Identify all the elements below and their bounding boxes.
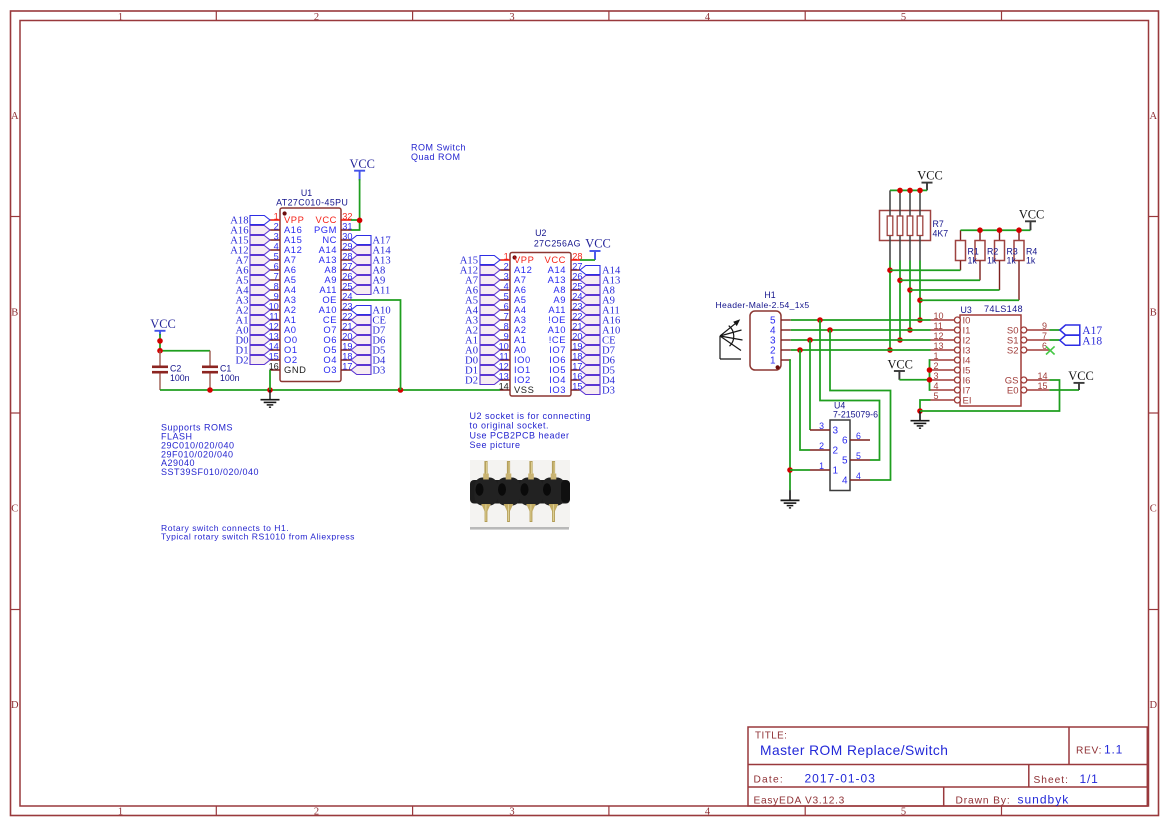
svg-text:TITLE:: TITLE: bbox=[755, 731, 787, 742]
annotation rotary switch note bbox=[161, 523, 355, 542]
R2 labels bbox=[987, 246, 998, 265]
junction dots above R7 bbox=[897, 188, 903, 194]
svg-text:1: 1 bbox=[118, 806, 123, 817]
junction dot C1 bottom bbox=[207, 387, 213, 393]
junction dot H1.1 / U4.1 bbox=[787, 467, 793, 473]
net flag A7 (U1 pin 5) bbox=[236, 256, 270, 267]
svg-text:Sheet:: Sheet: bbox=[1034, 775, 1069, 786]
junction dot U1 GND bbox=[267, 387, 273, 393]
wire S1 to A18 flag bbox=[1049, 339, 1059, 341]
wire ground rail y=390 bbox=[160, 389, 500, 391]
net flag A17 (U3 S0) bbox=[1060, 325, 1103, 337]
svg-text:S2: S2 bbox=[1007, 345, 1019, 356]
svg-text:100n: 100n bbox=[170, 373, 190, 383]
wires R1-R4 bottoms to input rows bbox=[890, 269, 961, 271]
net flag A18 (U3 S1) bbox=[1060, 335, 1103, 347]
svg-text:C: C bbox=[11, 504, 18, 515]
net flag A11 (U1 pin 25) bbox=[351, 286, 390, 297]
svg-text:74LS148: 74LS148 bbox=[984, 304, 1023, 314]
net flag A6 (U1 pin 6) bbox=[236, 266, 270, 277]
IC U3 74LS148 body bbox=[960, 315, 1021, 406]
annotation ROM Switch / Quad ROM bbox=[411, 142, 466, 162]
svg-text:to original socket.: to original socket. bbox=[470, 421, 550, 431]
junction dots on H1 row wires bbox=[817, 317, 823, 323]
svg-text:Header-Male-2.54_1x5: Header-Male-2.54_1x5 bbox=[716, 300, 810, 310]
svg-text:3: 3 bbox=[833, 425, 839, 436]
svg-text:1/1: 1/1 bbox=[1080, 772, 1099, 786]
svg-text:4: 4 bbox=[705, 12, 711, 23]
net flag A1 (U2 pin 9) bbox=[465, 336, 500, 347]
junction dots R7 verticals bbox=[887, 267, 893, 273]
svg-text:11: 11 bbox=[499, 352, 509, 362]
wire U4.1 from H1.1 vertical bbox=[790, 469, 810, 471]
svg-text:5: 5 bbox=[901, 806, 906, 817]
net flag A9 (U2 pin 24) bbox=[580, 296, 615, 307]
svg-text:5: 5 bbox=[842, 455, 848, 466]
vcc-c2-symbol bbox=[150, 317, 175, 336]
svg-text:VCC: VCC bbox=[917, 169, 942, 183]
capacitor C1 100n bbox=[202, 351, 240, 390]
U1 left pins 1-16 bbox=[269, 212, 307, 376]
vcc-r4-symbol bbox=[1019, 207, 1044, 230]
net flag A4 (U2 pin 6) bbox=[465, 306, 500, 317]
net flag D1 (U1 pin 14) bbox=[236, 346, 270, 357]
wire net H1.4 / I1 bbox=[791, 329, 931, 331]
wire VCC node to U1 pin 31 PGM bbox=[351, 220, 360, 230]
svg-text:EI: EI bbox=[963, 395, 972, 406]
svg-text:9: 9 bbox=[504, 332, 509, 342]
svg-text:14: 14 bbox=[1038, 371, 1048, 381]
svg-text:5: 5 bbox=[901, 12, 906, 23]
vcc-u1-symbol bbox=[349, 157, 374, 181]
wire U1 pin16 GND down to rail bbox=[269, 370, 271, 390]
svg-text:31: 31 bbox=[342, 222, 352, 232]
wire I0 node down to U4.5 bbox=[820, 320, 880, 460]
net flag A14 (U1 pin 29) bbox=[351, 246, 391, 257]
svg-text:B: B bbox=[1150, 307, 1157, 318]
svg-text:1k: 1k bbox=[968, 256, 978, 266]
svg-text:2: 2 bbox=[314, 12, 319, 23]
svg-text:Typical rotary switch RS1010 f: Typical rotary switch RS1010 from Aliexp… bbox=[161, 532, 355, 542]
svg-text:C: C bbox=[1150, 504, 1157, 515]
svg-text:A: A bbox=[11, 111, 19, 122]
net flag A4 (U1 pin 8) bbox=[236, 286, 270, 297]
net flag A10 (U1 pin 23) bbox=[351, 306, 391, 317]
svg-text:2: 2 bbox=[504, 262, 509, 272]
frame column numbers bbox=[118, 12, 906, 818]
wires R7 outputs down to input rows bbox=[889, 261, 891, 351]
svg-text:12: 12 bbox=[934, 331, 944, 341]
wire I2 node down to U4.3 bbox=[809, 340, 811, 430]
svg-text:VCC: VCC bbox=[150, 317, 175, 331]
svg-text:4: 4 bbox=[705, 806, 711, 817]
svg-text:4: 4 bbox=[504, 282, 509, 292]
svg-text:VSS: VSS bbox=[514, 384, 534, 395]
net flag CE (U2 pin 20) bbox=[580, 336, 616, 347]
svg-text:3: 3 bbox=[934, 371, 939, 381]
svg-text:A18: A18 bbox=[1082, 336, 1102, 348]
net flag A12 (U1 pin 4) bbox=[230, 246, 270, 257]
wire VCC to I4-I7 tie bbox=[899, 379, 929, 381]
svg-text:3: 3 bbox=[274, 232, 279, 242]
vcc-i6-symbol bbox=[887, 357, 912, 379]
svg-text:Use PCB2PCB header: Use PCB2PCB header bbox=[470, 430, 570, 440]
wire net H1.2 / I3 bbox=[791, 349, 931, 351]
svg-text:14: 14 bbox=[499, 382, 509, 392]
svg-text:2017-01-03: 2017-01-03 bbox=[805, 772, 876, 786]
U2 right pins 15-28 bbox=[545, 252, 583, 396]
svg-text:EasyEDA V3.12.3: EasyEDA V3.12.3 bbox=[754, 795, 845, 806]
U1 right pins 17-32 bbox=[314, 212, 353, 376]
junction dots on VCC stem bbox=[157, 338, 163, 344]
svg-text:7: 7 bbox=[274, 272, 279, 282]
svg-text:Master ROM Replace/Switch: Master ROM Replace/Switch bbox=[760, 743, 948, 758]
wire net H1.3 / I2 bbox=[791, 339, 931, 341]
wire net H1.5 / I0 bbox=[791, 319, 931, 321]
net flag D6 (U2 pin 18) bbox=[580, 356, 615, 367]
svg-text:1: 1 bbox=[504, 252, 509, 262]
svg-text:6: 6 bbox=[274, 262, 279, 272]
junction dot OE wire at rail bbox=[398, 387, 404, 393]
U3 output pins S0,S1,S2,GS,E0 bbox=[1005, 321, 1050, 397]
wire I3 node down to U4.2 bbox=[800, 350, 810, 450]
net flag A5 (U2 pin 5) bbox=[465, 296, 500, 307]
svg-text:U2 socket is for connecting: U2 socket is for connecting bbox=[470, 411, 592, 421]
resistor R2 1k bbox=[975, 230, 985, 280]
net flag D5 (U1 pin 19) bbox=[351, 346, 385, 357]
svg-text:1.1: 1.1 bbox=[1104, 743, 1123, 757]
net flag A11 (U2 pin 23) bbox=[580, 306, 620, 317]
net flag A6 (U2 pin 4) bbox=[465, 286, 500, 297]
svg-text:4: 4 bbox=[934, 381, 939, 391]
svg-text:1: 1 bbox=[819, 461, 824, 471]
svg-text:3: 3 bbox=[509, 806, 514, 817]
svg-text:D3: D3 bbox=[372, 366, 385, 377]
svg-text:1: 1 bbox=[833, 465, 839, 476]
wire S0 to A17 flag bbox=[1049, 329, 1059, 331]
net flag A1 (U1 pin 11) bbox=[236, 316, 270, 327]
net flag A16 (U2 pin 22) bbox=[580, 316, 620, 327]
wire I1 node down to U4.4 bbox=[830, 330, 891, 480]
net flag A12 (U2 pin 2) bbox=[460, 266, 500, 277]
svg-text:15: 15 bbox=[1038, 381, 1048, 391]
U3 input pins I0-I7, EI bbox=[931, 311, 972, 407]
net flag A8 (U2 pin 25) bbox=[580, 286, 615, 297]
net flag CE (U1 pin 22) bbox=[351, 316, 386, 327]
svg-text:4: 4 bbox=[842, 475, 848, 486]
net flag A0 (U1 pin 12) bbox=[236, 326, 270, 337]
svg-text:27C256AG: 27C256AG bbox=[534, 239, 581, 249]
net flag D3 (U2 pin 15) bbox=[580, 386, 615, 397]
svg-text:5: 5 bbox=[274, 252, 279, 262]
svg-text:ROM Switch: ROM Switch bbox=[411, 142, 466, 152]
resistor R1 1k bbox=[956, 230, 966, 270]
net flag A7 (U2 pin 3) bbox=[465, 276, 500, 287]
net flag A13 (U2 pin 26) bbox=[580, 276, 620, 287]
svg-text:1: 1 bbox=[934, 351, 939, 361]
svg-text:Date:: Date: bbox=[754, 775, 784, 786]
svg-text:1k: 1k bbox=[1007, 256, 1017, 266]
svg-text:2: 2 bbox=[819, 441, 824, 451]
svg-text:7: 7 bbox=[504, 312, 509, 322]
H1 pins 1-5 bbox=[770, 315, 791, 366]
wire EI to ground bbox=[920, 400, 931, 411]
U4 left pins 3,2,1 bbox=[810, 421, 839, 477]
svg-text:2: 2 bbox=[833, 445, 839, 456]
svg-text:24: 24 bbox=[342, 292, 352, 302]
net flag D3 (U1 pin 17) bbox=[351, 366, 385, 377]
svg-text:2: 2 bbox=[274, 222, 279, 232]
capacitor C2 100n bbox=[152, 351, 190, 390]
net flag D7 (U1 pin 21) bbox=[351, 326, 385, 337]
svg-text:VCC: VCC bbox=[1019, 207, 1044, 221]
svg-text:2: 2 bbox=[934, 361, 939, 371]
svg-text:3: 3 bbox=[509, 12, 514, 23]
net flag D0 (U2 pin 11) bbox=[465, 356, 500, 367]
svg-text:5: 5 bbox=[934, 391, 939, 401]
svg-text:REV:: REV: bbox=[1076, 746, 1102, 757]
wire GS to ground node bbox=[920, 380, 1060, 411]
wire H1.1 down to U4.1 and ground bbox=[789, 360, 792, 491]
junction dots above R2 R3 R4 bbox=[977, 227, 983, 233]
svg-text:C1: C1 bbox=[220, 364, 231, 374]
svg-text:11: 11 bbox=[269, 312, 279, 322]
net flag D7 (U2 pin 19) bbox=[580, 346, 615, 357]
svg-text:5: 5 bbox=[856, 451, 861, 461]
svg-text:D: D bbox=[1150, 700, 1158, 711]
svg-text:4: 4 bbox=[274, 242, 279, 252]
wire U2 pin28 to VCC bbox=[580, 259, 595, 261]
svg-text:11: 11 bbox=[934, 321, 943, 331]
net flag D4 (U2 pin 16) bbox=[580, 376, 616, 387]
svg-text:6: 6 bbox=[856, 431, 861, 441]
resistor R3 1k bbox=[995, 230, 1005, 290]
U2 left pins 1-14 bbox=[499, 252, 535, 396]
svg-text:4: 4 bbox=[856, 471, 861, 481]
IC U2 27C256AG body bbox=[510, 253, 571, 397]
junction dots I5 I6 bbox=[927, 367, 933, 373]
wire I4-I7 pullup vertical bbox=[930, 360, 931, 390]
wire C2 node to C1 top bbox=[160, 350, 210, 352]
net flag A8 (U1 pin 27) bbox=[351, 266, 385, 277]
resistor R4 1k bbox=[1014, 230, 1024, 300]
svg-text:A: A bbox=[1150, 111, 1158, 122]
net flag D5 (U2 pin 17) bbox=[580, 366, 615, 377]
svg-text:Drawn By:: Drawn By: bbox=[956, 796, 1011, 807]
svg-text:H1: H1 bbox=[764, 290, 775, 300]
svg-text:8: 8 bbox=[504, 322, 509, 332]
net flag A5 (U1 pin 7) bbox=[236, 276, 270, 287]
svg-text:6: 6 bbox=[842, 435, 848, 446]
svg-text:1k: 1k bbox=[987, 256, 997, 266]
svg-text:VCC: VCC bbox=[1068, 369, 1093, 383]
svg-text:sundbyk: sundbyk bbox=[1018, 793, 1070, 807]
svg-text:Quad ROM: Quad ROM bbox=[411, 152, 461, 162]
svg-text:8: 8 bbox=[274, 282, 279, 292]
net flag A15 (U2 pin 1) bbox=[460, 256, 500, 267]
ground under H1 wire bbox=[781, 491, 800, 508]
svg-text:32: 32 bbox=[342, 212, 352, 222]
svg-text:O3: O3 bbox=[323, 364, 337, 375]
svg-text:VCC: VCC bbox=[887, 357, 912, 371]
svg-text:1: 1 bbox=[118, 12, 123, 23]
annotation Supports ROMS list bbox=[161, 423, 259, 478]
svg-text:4K7: 4K7 bbox=[933, 228, 949, 238]
svg-text:SST39SF010/020/040: SST39SF010/020/040 bbox=[161, 467, 259, 477]
annotation U2 socket note bbox=[470, 411, 592, 450]
svg-text:1: 1 bbox=[274, 212, 279, 222]
svg-text:1: 1 bbox=[770, 355, 776, 366]
frame row letters bbox=[11, 111, 1158, 711]
U4 right pins 6,5,4 bbox=[842, 431, 870, 487]
resistor network R7 4K7 bbox=[880, 190, 931, 260]
net flag A0 (U2 pin 10) bbox=[465, 346, 500, 357]
vcc-r7-symbol bbox=[917, 169, 942, 191]
wire VCC bus above R7 bbox=[890, 189, 927, 191]
wire VCC bus above R1-R4 bbox=[961, 229, 1031, 231]
R4 labels bbox=[1026, 246, 1037, 265]
net flag A16 (U1 pin 2) bbox=[230, 226, 270, 237]
svg-text:D2: D2 bbox=[236, 356, 249, 367]
wire E0 to VCC bbox=[1049, 389, 1079, 391]
title block outline bbox=[748, 727, 1147, 806]
rotary switch sketch symbol bbox=[720, 319, 743, 359]
R1 labels bbox=[968, 246, 979, 265]
net flag D1 (U2 pin 12) bbox=[465, 366, 500, 377]
svg-text:100n: 100n bbox=[220, 373, 240, 383]
svg-text:D3: D3 bbox=[602, 386, 615, 397]
connector H1 Header-Male-2.54_1x5 body bbox=[750, 311, 781, 370]
svg-text:6: 6 bbox=[504, 302, 509, 312]
switch U4 7-215079-6 body bbox=[830, 420, 850, 491]
svg-text:See picture: See picture bbox=[470, 440, 521, 450]
net flag A15 (U1 pin 3) bbox=[230, 236, 270, 247]
svg-text:3: 3 bbox=[504, 272, 509, 282]
IC U1 AT27C010-45PU body bbox=[280, 208, 341, 382]
svg-text:U3: U3 bbox=[961, 305, 972, 315]
ground at U3 EI bbox=[911, 411, 930, 428]
svg-text:A11: A11 bbox=[372, 286, 390, 297]
svg-text:D: D bbox=[11, 700, 19, 711]
svg-text:U2: U2 bbox=[535, 228, 546, 238]
net flag D2 (U2 pin 13) bbox=[465, 376, 500, 387]
net flag A2 (U1 pin 10) bbox=[236, 306, 270, 317]
vcc-u2-symbol bbox=[585, 237, 610, 260]
svg-text:GND: GND bbox=[284, 364, 306, 375]
wire VCC to C2/C1 node bbox=[159, 334, 161, 351]
svg-text:13: 13 bbox=[934, 341, 944, 351]
svg-text:9: 9 bbox=[274, 292, 279, 302]
ground under U1 bbox=[261, 390, 280, 407]
net flag D0 (U1 pin 13) bbox=[236, 336, 270, 347]
svg-text:AT27C010-45PU: AT27C010-45PU bbox=[276, 198, 348, 208]
net flag D2 (U1 pin 15) bbox=[236, 356, 270, 367]
net flag A13 (U1 pin 28) bbox=[351, 256, 391, 267]
net flag A17 (U1 pin 30) bbox=[351, 236, 391, 247]
net flag A3 (U1 pin 9) bbox=[236, 296, 270, 307]
svg-text:B: B bbox=[11, 307, 18, 318]
net flag D4 (U1 pin 18) bbox=[351, 356, 386, 367]
vcc-e0-symbol bbox=[1068, 369, 1093, 390]
svg-text:10: 10 bbox=[934, 311, 944, 321]
svg-text:2: 2 bbox=[314, 806, 319, 817]
net flag A2 (U2 pin 8) bbox=[465, 326, 500, 337]
svg-text:IO3: IO3 bbox=[549, 384, 566, 395]
svg-text:1k: 1k bbox=[1026, 256, 1036, 266]
svg-text:7: 7 bbox=[1042, 331, 1047, 341]
photo of PCB2PCB header pins bbox=[470, 460, 570, 530]
wire U1 OE (pin 24) to ground rail bbox=[351, 300, 401, 390]
svg-text:VCC: VCC bbox=[585, 237, 610, 251]
svg-text:C2: C2 bbox=[170, 364, 181, 374]
no-connect X on S2 bbox=[1046, 346, 1055, 354]
svg-text:6: 6 bbox=[1042, 341, 1047, 351]
R3 labels bbox=[1007, 246, 1018, 265]
wire VCC down to U1 pin 32 bbox=[351, 179, 360, 220]
svg-text:VCC: VCC bbox=[349, 157, 374, 171]
net flag A10 (U2 pin 21) bbox=[580, 326, 620, 337]
svg-text:E0: E0 bbox=[1007, 385, 1019, 396]
net flag A9 (U1 pin 26) bbox=[351, 276, 385, 287]
net flag A14 (U2 pin 27) bbox=[580, 266, 621, 277]
junction dot EI/GS/ground bbox=[917, 408, 923, 414]
net flag A3 (U2 pin 7) bbox=[465, 316, 500, 327]
svg-text:D2: D2 bbox=[465, 376, 478, 387]
svg-text:9: 9 bbox=[1042, 321, 1047, 331]
svg-text:3: 3 bbox=[819, 421, 824, 431]
net flag A18 (U1 pin 1) bbox=[230, 216, 270, 227]
svg-text:7-215079-6: 7-215079-6 bbox=[833, 410, 878, 420]
junction dot at U1 pin 32 bbox=[357, 218, 363, 224]
net flag D6 (U1 pin 20) bbox=[351, 336, 385, 347]
svg-text:5: 5 bbox=[504, 292, 509, 302]
